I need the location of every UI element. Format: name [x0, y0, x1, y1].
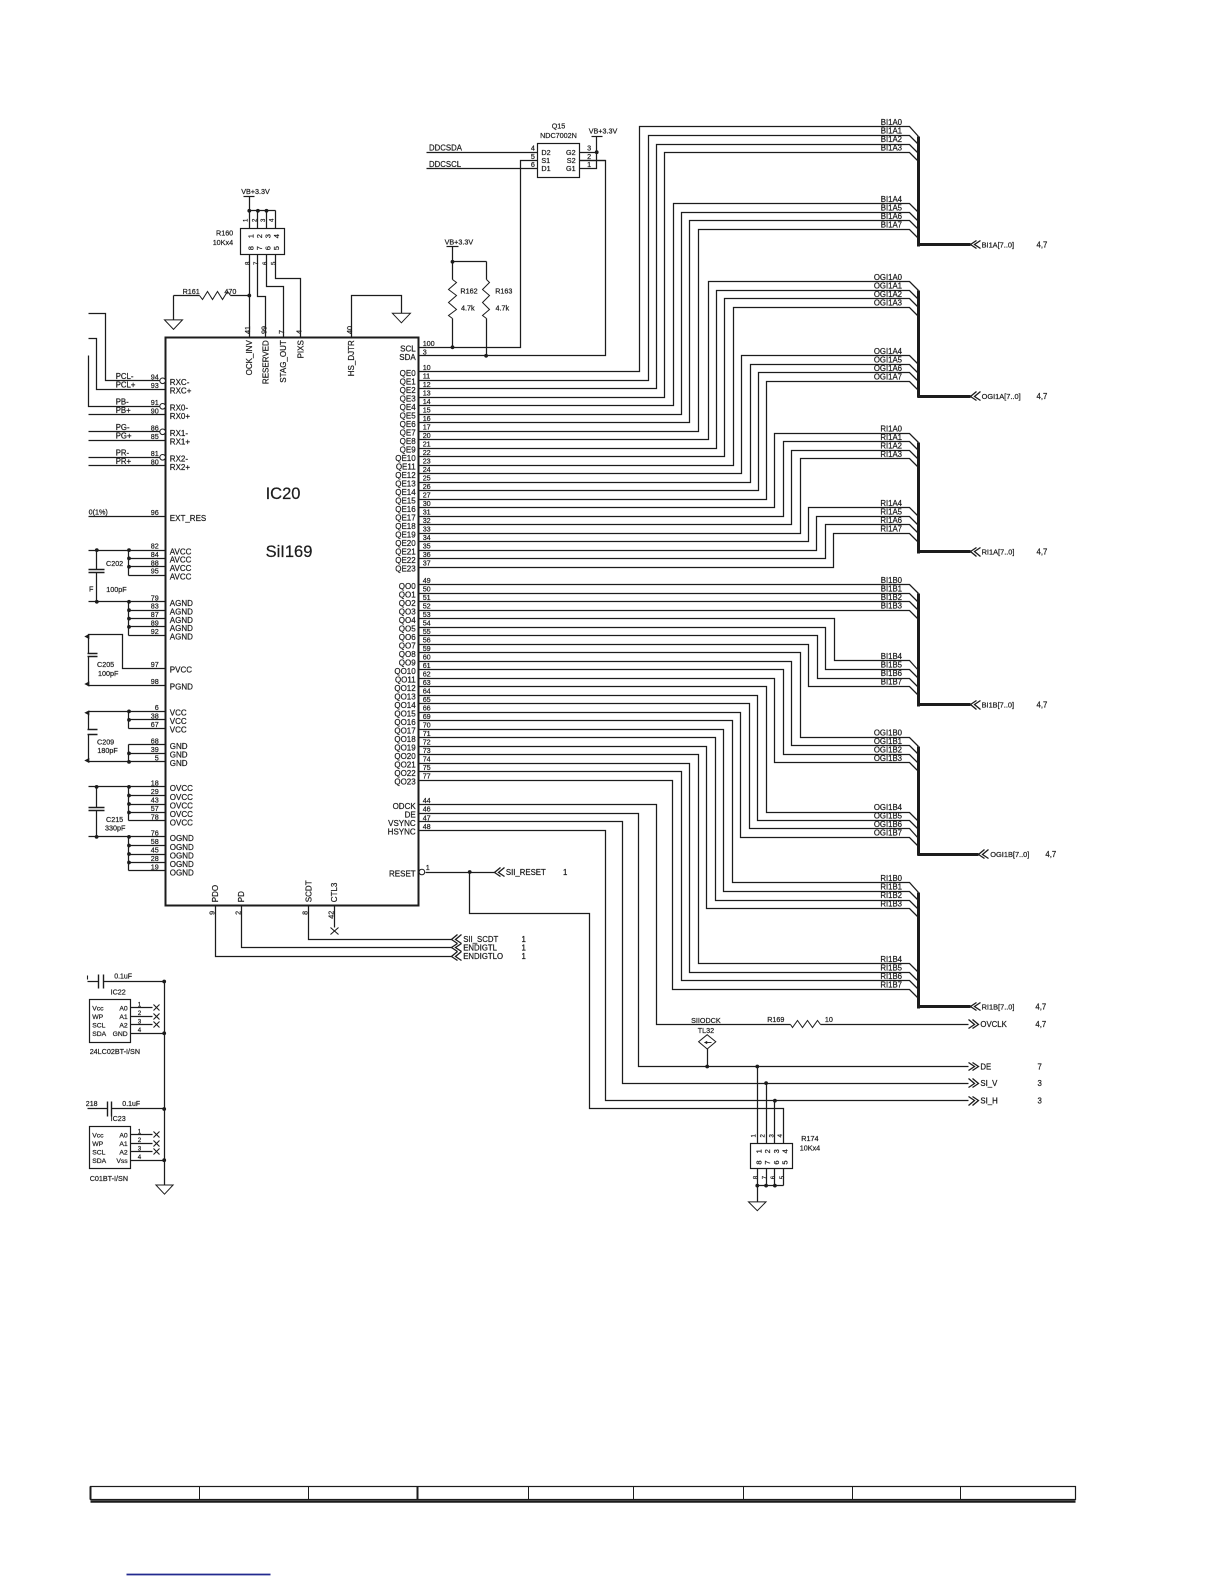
svg-text:G1: G1 — [566, 164, 576, 173]
svg-text:VB+3.3V: VB+3.3V — [445, 238, 474, 247]
svg-text:6: 6 — [772, 1160, 781, 1164]
svg-text:Vcc: Vcc — [92, 1005, 104, 1012]
svg-text:RI1A[7..0]: RI1A[7..0] — [982, 548, 1015, 557]
svg-text:GND: GND — [170, 759, 188, 768]
svg-text:330pF: 330pF — [105, 824, 126, 833]
svg-text:GND: GND — [113, 1031, 128, 1038]
svg-text:SCDT: SCDT — [304, 880, 313, 902]
svg-text:RI1B[7..0]: RI1B[7..0] — [982, 1002, 1015, 1011]
svg-text:VCC: VCC — [170, 726, 187, 735]
svg-text:CTL3: CTL3 — [330, 882, 339, 902]
svg-text:2: 2 — [138, 1010, 142, 1017]
svg-text:ENDIGTLO: ENDIGTLO — [463, 952, 503, 961]
svg-text:4,7: 4,7 — [1035, 1002, 1046, 1011]
svg-text:A0: A0 — [119, 1132, 128, 1139]
svg-text:R160: R160 — [216, 229, 233, 238]
svg-text:BI1B[7..0]: BI1B[7..0] — [982, 701, 1014, 710]
svg-text:1: 1 — [138, 1002, 142, 1009]
svg-text:RX1+: RX1+ — [170, 438, 191, 447]
svg-text:100pF: 100pF — [98, 669, 119, 678]
svg-text:218: 218 — [86, 1101, 98, 1108]
svg-text:OGI1B[7..0]: OGI1B[7..0] — [990, 850, 1029, 859]
svg-text:IC22: IC22 — [111, 987, 126, 996]
svg-text:RX2+: RX2+ — [170, 463, 191, 472]
svg-text:7: 7 — [277, 330, 286, 334]
svg-text:OGI1B7: OGI1B7 — [874, 829, 902, 838]
svg-text:1: 1 — [426, 863, 430, 872]
svg-text:HSYNC: HSYNC — [388, 828, 416, 837]
svg-text:RI1B7: RI1B7 — [880, 981, 902, 990]
svg-text:40: 40 — [345, 326, 354, 334]
svg-text:3: 3 — [138, 1145, 142, 1152]
svg-text:OGI1A7: OGI1A7 — [874, 372, 902, 381]
svg-text:4.7k: 4.7k — [496, 304, 510, 313]
svg-text:48: 48 — [423, 822, 431, 831]
svg-text:4,7: 4,7 — [1037, 392, 1048, 401]
svg-text:Vss: Vss — [116, 1158, 128, 1165]
svg-text:PD: PD — [237, 891, 246, 902]
svg-text:STAG_OUT: STAG_OUT — [279, 340, 288, 383]
svg-text:IC23: IC23 — [111, 1114, 126, 1123]
svg-text:RXC+: RXC+ — [170, 387, 192, 396]
svg-text:QO23: QO23 — [394, 778, 416, 787]
svg-text:0(1%): 0(1%) — [89, 508, 108, 517]
svg-text:BI1B3: BI1B3 — [881, 601, 902, 610]
svg-text:A2: A2 — [119, 1022, 128, 1029]
svg-text:1: 1 — [563, 868, 567, 877]
svg-text:AGND: AGND — [170, 633, 193, 642]
svg-text:DE: DE — [980, 1062, 991, 1071]
svg-text:10Kx4: 10Kx4 — [800, 1144, 820, 1153]
svg-text:OCK_INV: OCK_INV — [245, 340, 254, 376]
svg-text:OGI1A[7..0]: OGI1A[7..0] — [982, 392, 1021, 401]
svg-text:DDCSCL: DDCSCL — [429, 160, 462, 169]
svg-text:OVCLK: OVCLK — [980, 1020, 1007, 1029]
svg-text:C205: C205 — [97, 660, 114, 669]
svg-text:5: 5 — [781, 1160, 790, 1164]
svg-text:92: 92 — [151, 627, 159, 636]
svg-text:DDCSDA: DDCSDA — [429, 143, 463, 152]
svg-text:VB+3.3V: VB+3.3V — [241, 187, 270, 196]
svg-text:A1: A1 — [119, 1141, 128, 1148]
svg-text:96: 96 — [151, 508, 159, 517]
svg-text:4,7: 4,7 — [1037, 701, 1048, 710]
svg-text:8: 8 — [754, 1160, 763, 1164]
svg-text:2: 2 — [763, 1149, 772, 1153]
svg-text:1: 1 — [138, 1128, 142, 1135]
svg-text:SDA: SDA — [92, 1031, 106, 1038]
svg-text:RI1A7: RI1A7 — [880, 524, 902, 533]
svg-text:PB+: PB+ — [116, 406, 131, 415]
svg-text:95: 95 — [151, 567, 159, 576]
svg-text:SCL: SCL — [92, 1022, 105, 1029]
svg-text:67: 67 — [151, 720, 159, 729]
svg-text:4: 4 — [272, 234, 281, 238]
svg-text:4,7: 4,7 — [1037, 548, 1048, 557]
svg-text:0.1uF: 0.1uF — [122, 1101, 140, 1108]
svg-text:PDO: PDO — [211, 885, 220, 902]
svg-text:RX0+: RX0+ — [170, 412, 191, 421]
svg-text:C202: C202 — [106, 559, 123, 568]
svg-text:PVCC: PVCC — [170, 666, 192, 675]
svg-text:4,7: 4,7 — [1037, 240, 1048, 249]
svg-text:QE23: QE23 — [395, 565, 416, 574]
svg-text:RESET: RESET — [389, 869, 416, 878]
svg-text:4: 4 — [138, 1027, 142, 1034]
svg-text:A2: A2 — [119, 1149, 128, 1156]
svg-text:10Kx4: 10Kx4 — [213, 238, 233, 247]
svg-text:4: 4 — [295, 330, 304, 334]
svg-text:R163: R163 — [495, 287, 512, 296]
svg-text:WP: WP — [92, 1014, 103, 1021]
svg-text:4,7: 4,7 — [1035, 1020, 1046, 1029]
svg-text:SCL: SCL — [92, 1149, 105, 1156]
svg-text:BI1A3: BI1A3 — [881, 144, 902, 153]
svg-text:A0: A0 — [119, 1005, 128, 1012]
svg-text:SDA: SDA — [399, 353, 416, 362]
svg-text:7: 7 — [763, 1160, 772, 1164]
svg-text:7: 7 — [1038, 1062, 1042, 1071]
svg-text:97: 97 — [151, 660, 159, 669]
svg-text:BI1A[7..0]: BI1A[7..0] — [982, 240, 1014, 249]
svg-text:VB+3.3V: VB+3.3V — [589, 127, 618, 136]
svg-text:OVCC: OVCC — [170, 818, 193, 827]
svg-text:77: 77 — [423, 772, 431, 781]
svg-text:100pF: 100pF — [106, 585, 127, 594]
svg-text:BI1A7: BI1A7 — [881, 220, 902, 229]
svg-text:D1: D1 — [541, 164, 550, 173]
svg-text:SIIODCK: SIIODCK — [691, 1016, 721, 1025]
svg-text:3: 3 — [1038, 1079, 1042, 1088]
svg-text:Vcc: Vcc — [92, 1132, 104, 1139]
svg-text:RI1B3: RI1B3 — [880, 900, 902, 909]
svg-text:3: 3 — [772, 1149, 781, 1153]
svg-text:C01BT-I/SN: C01BT-I/SN — [90, 1174, 128, 1183]
svg-text:OGI1B3: OGI1B3 — [874, 754, 902, 763]
svg-text:99: 99 — [260, 326, 269, 334]
svg-text:NDC7002N: NDC7002N — [540, 131, 577, 140]
svg-text:R169: R169 — [767, 1015, 784, 1024]
svg-text:2: 2 — [138, 1137, 142, 1144]
svg-text:5: 5 — [272, 246, 281, 250]
svg-text:F: F — [89, 585, 94, 594]
svg-text:4: 4 — [138, 1154, 142, 1161]
svg-text:3: 3 — [138, 1019, 142, 1026]
svg-text:24LC02BT-I/SN: 24LC02BT-I/SN — [90, 1047, 140, 1056]
svg-text:180pF: 180pF — [97, 746, 118, 755]
svg-text:A1: A1 — [119, 1014, 128, 1021]
svg-text:R174: R174 — [801, 1134, 818, 1143]
svg-text:R162: R162 — [460, 287, 477, 296]
svg-text:SiI169: SiI169 — [266, 543, 313, 561]
svg-text:PR+: PR+ — [116, 457, 132, 466]
svg-text:OGND: OGND — [170, 868, 194, 877]
svg-text:4,7: 4,7 — [1045, 850, 1056, 859]
svg-text:SI_H: SI_H — [980, 1097, 997, 1106]
svg-text:Q15: Q15 — [552, 122, 566, 131]
svg-text:85: 85 — [151, 432, 159, 441]
svg-text:PIXS: PIXS — [297, 340, 306, 358]
svg-text:41: 41 — [243, 326, 252, 334]
svg-text:AVCC: AVCC — [170, 573, 192, 582]
svg-text:1: 1 — [522, 952, 526, 961]
svg-text:TL32: TL32 — [698, 1026, 714, 1035]
svg-text:SI_V: SI_V — [980, 1079, 998, 1088]
svg-text:OGI1A3: OGI1A3 — [874, 298, 902, 307]
svg-text:10: 10 — [825, 1015, 833, 1024]
svg-text:4.7k: 4.7k — [461, 304, 475, 313]
svg-text:3: 3 — [1038, 1097, 1042, 1106]
svg-text:98: 98 — [151, 677, 159, 686]
svg-text:WP: WP — [92, 1141, 103, 1148]
svg-text:R161: R161 — [183, 287, 200, 296]
svg-text:1: 1 — [754, 1149, 763, 1153]
svg-text:PCL+: PCL+ — [116, 381, 136, 390]
svg-text:93: 93 — [151, 381, 159, 390]
svg-text:37: 37 — [423, 559, 431, 568]
svg-text:PG+: PG+ — [116, 432, 132, 441]
svg-text:SDA: SDA — [92, 1158, 106, 1165]
svg-text:RESERVED: RESERVED — [262, 340, 271, 384]
svg-text:4: 4 — [781, 1149, 790, 1153]
svg-text:SII_RESET: SII_RESET — [506, 868, 546, 877]
svg-text:PGND: PGND — [170, 683, 193, 692]
svg-text:BI1B7: BI1B7 — [881, 678, 902, 687]
svg-text:RI1A3: RI1A3 — [880, 450, 902, 459]
svg-text:EXT_RES: EXT_RES — [170, 514, 206, 523]
svg-text:IC20: IC20 — [266, 485, 301, 503]
svg-text:0.1uF: 0.1uF — [114, 974, 132, 981]
svg-text:1: 1 — [587, 160, 591, 169]
svg-text:6: 6 — [531, 160, 535, 169]
svg-text:HS_DJTR: HS_DJTR — [347, 340, 356, 376]
